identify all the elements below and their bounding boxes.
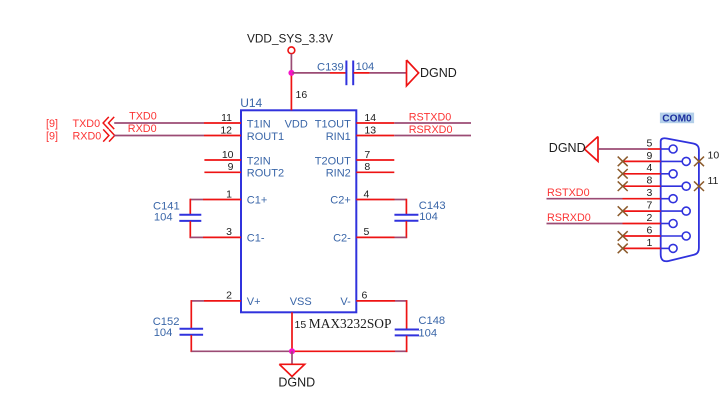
svg-text:2: 2 — [646, 212, 652, 224]
svg-text:VSS: VSS — [290, 296, 312, 308]
DB9 pad pin 9 lead — [661, 160, 683, 162]
svg-text:C152: C152 — [153, 316, 180, 328]
svg-text:9: 9 — [646, 150, 652, 162]
svg-text:RSTXD0: RSTXD0 — [409, 112, 452, 124]
svg-text:4: 4 — [646, 162, 652, 174]
svg-text:T1OUT: T1OUT — [315, 118, 351, 130]
svg-text:MAX3232SOP: MAX3232SOP — [309, 316, 392, 331]
pin 12 stub — [204, 135, 241, 137]
svg-text:C143: C143 — [419, 200, 446, 212]
ground DGND down triangle — [279, 364, 304, 376]
pin 9 stub — [204, 171, 241, 173]
wire power to junction — [290, 54, 292, 73]
svg-text:VDD: VDD — [285, 118, 308, 130]
wire RSRXD0 net — [394, 135, 471, 137]
svg-text:T2OUT: T2OUT — [315, 155, 351, 167]
svg-text:VDD_SYS_3.3V: VDD_SYS_3.3V — [247, 31, 333, 45]
svg-text:16: 16 — [296, 89, 308, 101]
svg-text:104: 104 — [154, 211, 173, 223]
pin 2 stub — [204, 300, 241, 302]
svg-text:RXD0: RXD0 — [73, 130, 102, 142]
svg-text:C2+: C2+ — [330, 195, 351, 207]
connector J1 DB9 body outline — [661, 138, 699, 261]
pin 7 stub — [356, 159, 394, 161]
DB9 pad pin 5 lead — [661, 148, 670, 150]
svg-text:ROUT1: ROUT1 — [247, 131, 284, 143]
wire junction to C139 — [293, 72, 331, 74]
no-connect stub DB9 pin 1 — [623, 247, 661, 249]
no-connect X pin 10 — [694, 157, 704, 167]
svg-text:6: 6 — [362, 290, 368, 302]
svg-text:104: 104 — [418, 328, 437, 340]
no-connect stub DB9 pin 6 — [623, 235, 661, 237]
svg-text:10: 10 — [708, 150, 720, 162]
no-connect stub DB9 pin 9 — [623, 160, 661, 162]
DB9 pad pin 7 lead — [661, 210, 683, 212]
svg-text:DGND: DGND — [549, 141, 586, 155]
pin 13 stub — [356, 135, 394, 137]
wire junction to DGND symbol — [291, 351, 293, 364]
wire DGND to DB9 pin 5 — [598, 148, 648, 150]
DB9 pad pin 1 — [669, 244, 677, 252]
svg-text:4: 4 — [364, 188, 370, 200]
svg-text:10: 10 — [222, 149, 234, 161]
svg-text:T2IN: T2IN — [247, 155, 271, 167]
pin 3 stub — [203, 236, 241, 238]
svg-text:8: 8 — [646, 175, 652, 187]
svg-text:RIN1: RIN1 — [326, 131, 351, 143]
capacitor C148 — [395, 329, 419, 331]
no-connect X pin 8 — [618, 181, 628, 191]
capacitor C139 — [345, 61, 347, 86]
pin 8 stub — [356, 171, 394, 173]
no-connect stub DB9 pin 7 — [623, 210, 661, 212]
wire C141 to pin3 — [189, 221, 191, 238]
DB9 pad pin 8 — [682, 182, 690, 190]
no-connect X pin 11 — [694, 181, 704, 191]
DB9 pad pin 4 lead — [661, 173, 670, 175]
DB9 pad pin 2 lead — [661, 223, 670, 225]
svg-text:RSRXD0: RSRXD0 — [409, 124, 453, 136]
svg-text:104: 104 — [419, 211, 438, 223]
connector designator COM0 highlighted — [660, 113, 694, 124]
no-connect X pin 4 — [618, 169, 628, 179]
svg-text:11: 11 — [708, 175, 719, 187]
wire C143 to pin5 — [405, 221, 407, 238]
svg-text:TXD0: TXD0 — [129, 111, 157, 123]
svg-text:RIN2: RIN2 — [326, 168, 351, 180]
wire corner pin4 to C143 — [395, 199, 407, 201]
svg-text:[9]: [9] — [46, 118, 58, 130]
pin 15 VSS wire — [291, 312, 293, 351]
svg-text:RSRXD0: RSRXD0 — [547, 212, 591, 224]
svg-text:9: 9 — [228, 161, 234, 173]
DB9 pad pin 3 — [669, 195, 677, 203]
svg-text:104: 104 — [154, 327, 173, 339]
no-connect X pin 7 — [618, 206, 628, 216]
svg-text:12: 12 — [220, 124, 232, 136]
pin 14 stub — [356, 122, 394, 124]
svg-text:8: 8 — [364, 161, 370, 173]
ground DGND left-pointing triangle — [584, 137, 598, 162]
IC U14 MAX3232 body — [241, 110, 356, 312]
svg-text:3: 3 — [226, 226, 232, 238]
svg-text:U14: U14 — [240, 96, 262, 110]
pin 6 stub — [356, 300, 395, 302]
DB9 pad pin 7 — [682, 207, 690, 215]
svg-text:C139: C139 — [317, 61, 344, 73]
DB9 pad pin 8 lead — [661, 185, 683, 187]
DB9 pad pin 1 lead — [661, 247, 670, 249]
wire TXD0 net — [114, 122, 204, 124]
svg-text:6: 6 — [646, 224, 652, 236]
svg-text:RSTXD0: RSTXD0 — [547, 187, 590, 199]
pin 4 stub — [356, 199, 394, 201]
DB9 pad pin 5 — [669, 145, 677, 153]
svg-text:C1-: C1- — [247, 233, 265, 245]
wire bottom rail right — [292, 350, 395, 352]
svg-text:13: 13 — [364, 124, 376, 136]
DB9 pad pin 6 — [682, 232, 690, 240]
pin 1 stub — [203, 199, 241, 201]
svg-text:14: 14 — [364, 112, 376, 124]
pin 5 stub — [356, 236, 394, 238]
DB9 pad pin 2 — [669, 220, 677, 228]
wire corner pin6 to C148 — [395, 300, 407, 302]
svg-text:[9]: [9] — [46, 131, 58, 143]
svg-text:C2-: C2- — [333, 233, 351, 245]
power symbol circle — [288, 47, 295, 54]
svg-text:3: 3 — [646, 187, 652, 199]
wire bottom rail left — [191, 350, 292, 352]
pin 11 stub — [204, 122, 241, 124]
capacitor C143 — [394, 214, 418, 216]
svg-text:1: 1 — [646, 237, 652, 249]
wire RXD0 net — [114, 135, 204, 137]
DB9 pad pin 6 lead — [661, 235, 683, 237]
svg-text:TXD0: TXD0 — [73, 118, 101, 130]
svg-text:15: 15 — [295, 319, 307, 331]
svg-text:5: 5 — [364, 226, 370, 238]
svg-text:11: 11 — [221, 112, 232, 124]
svg-text:C148: C148 — [418, 315, 445, 327]
no-connect stub DB9 pin 8 — [623, 185, 661, 187]
capacitor C152 — [180, 328, 204, 330]
pin 16 wire — [290, 73, 292, 110]
wire RSRXD0 to DB9 pin 2 — [547, 223, 623, 225]
svg-text:DGND: DGND — [278, 375, 315, 389]
svg-text:V+: V+ — [247, 296, 261, 308]
DB9 pad pin 3 lead — [661, 198, 670, 200]
junction node VDD — [288, 70, 294, 76]
no-connect X pin 9 — [618, 157, 628, 167]
wire RSTXD0 to DB9 pin 3 — [547, 198, 623, 200]
svg-text:DGND: DGND — [420, 66, 457, 80]
port RXD0 chevrons — [103, 129, 109, 141]
svg-text:2: 2 — [226, 290, 232, 302]
wire corner pin2 to C152 — [191, 300, 204, 302]
port TXD0 chevrons — [103, 117, 109, 129]
svg-text:1: 1 — [226, 188, 232, 200]
svg-text:COM0: COM0 — [662, 113, 692, 124]
no-connect X pin 6 — [618, 231, 628, 241]
no-connect X pin 1 — [618, 244, 628, 254]
DB9 pad pin 4 — [669, 170, 677, 178]
wire C152 to bottom rail — [190, 335, 192, 352]
svg-text:T1IN: T1IN — [247, 118, 271, 130]
svg-text:104: 104 — [356, 61, 375, 73]
svg-text:5: 5 — [646, 137, 652, 149]
svg-text:7: 7 — [646, 200, 652, 212]
wire corner pin1 to C141 — [190, 199, 203, 201]
svg-text:ROUT2: ROUT2 — [247, 168, 284, 180]
no-connect stub DB9 pin 4 — [623, 173, 661, 175]
svg-text:7: 7 — [364, 149, 370, 161]
DB9 pad pin 9 — [682, 157, 690, 165]
wire RSTXD0 net — [394, 122, 471, 124]
svg-text:C1+: C1+ — [247, 195, 267, 207]
wire C139 to DGND — [354, 72, 370, 74]
capacitor C141 — [179, 214, 201, 216]
junction node VSS-rail — [289, 348, 295, 354]
svg-text:V-: V- — [340, 296, 351, 308]
wire C148 to bottom rail — [406, 336, 408, 352]
pin 10 stub — [204, 159, 241, 161]
svg-text:RXD0: RXD0 — [128, 123, 157, 135]
ground DGND right-pointing triangle — [407, 60, 419, 86]
